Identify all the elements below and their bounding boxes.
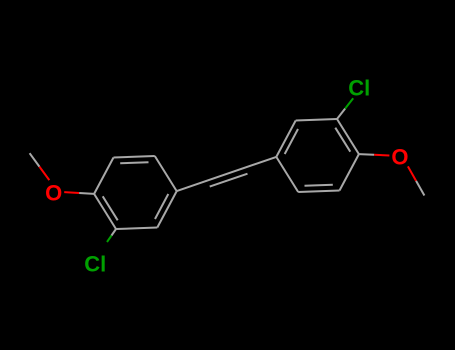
right ring C-C bond BC	[298, 191, 339, 193]
svg-text:O: O	[45, 181, 62, 206]
vinyl C=C double bond second line	[210, 174, 248, 187]
right ring aromatic double-bond inner line BC	[305, 184, 333, 187]
right ring C-C bond DE	[276, 121, 295, 157]
right ring aromatic double-bond inner line DE	[285, 129, 298, 154]
bond O(right)-CH3 methyl	[408, 166, 416, 181]
right ring C-C bond EF	[296, 119, 337, 121]
left ring C-C bond EF	[116, 228, 157, 230]
bond O(left)-ring	[64, 191, 79, 194]
left ring C-C bond DE	[157, 191, 176, 227]
left ring C-C bond FA	[94, 194, 116, 229]
bond O(left)-CH3 methyl	[39, 167, 49, 181]
svg-text:Cl: Cl	[84, 252, 106, 277]
bond O(right)-ring	[374, 154, 389, 157]
left ring C-C bond AB	[94, 158, 113, 194]
svg-text:O: O	[391, 145, 408, 170]
right ring aromatic double-bond inner line FA	[335, 128, 350, 152]
right ring C-C bond FA	[337, 119, 359, 154]
left ring C-C bond CD	[155, 156, 177, 191]
vinyl bridge main line CH=CH	[177, 157, 277, 191]
bond Cl(left)-ring	[107, 236, 112, 243]
left ring aromatic double-bond inner line BC	[120, 161, 148, 164]
svg-text:Cl: Cl	[348, 75, 370, 100]
left ring C-C bond BC	[114, 156, 155, 158]
left ring aromatic double-bond inner line DE	[155, 194, 168, 219]
right ring C-C bond AB	[340, 154, 359, 190]
right ring C-C bond CD	[276, 157, 298, 192]
left ring aromatic double-bond inner line FA	[103, 196, 118, 220]
bond Cl(right)-ring	[345, 98, 353, 108]
